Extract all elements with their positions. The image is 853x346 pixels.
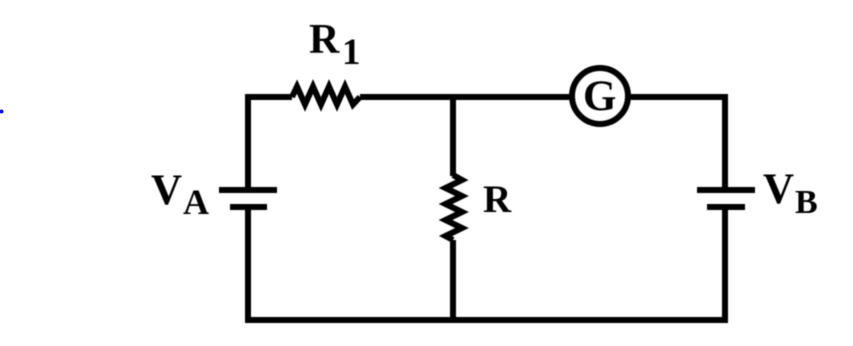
wire middle branch lower: [450, 240, 456, 320]
svg-text:V: V: [763, 166, 794, 213]
resistor R zigzag: [446, 175, 463, 240]
wire middle branch upper: [450, 97, 456, 176]
svg-text:R: R: [309, 17, 340, 63]
svg-text:V: V: [151, 167, 182, 214]
wire galvanometer to top-right corner: [629, 94, 728, 100]
resistor R1: [292, 87, 360, 105]
svg-text:1: 1: [342, 32, 361, 73]
label R1: [309, 17, 361, 73]
svg-text:B: B: [795, 184, 818, 221]
wire left branch upper: [245, 97, 251, 192]
label VB: [763, 166, 818, 221]
svg-text:R: R: [483, 178, 512, 221]
galvanometer U1 circle: [572, 68, 628, 124]
battery VA long plate: [219, 187, 277, 193]
battery VB long plate: [697, 187, 755, 193]
wire right branch lower: [722, 207, 728, 320]
battery VA short plate: [230, 204, 267, 210]
wire bottom: [245, 317, 728, 323]
wire top-left segment: [245, 94, 292, 100]
wire R1 to node A: [360, 94, 453, 100]
svg-text:A: A: [183, 182, 209, 222]
blue bullet dot: [0, 110, 4, 114]
wire node A to galvanometer: [453, 94, 571, 100]
svg-text:G: G: [583, 73, 616, 120]
label VA: [151, 167, 209, 222]
wire right branch upper: [722, 97, 728, 192]
battery VB short plate: [707, 204, 745, 210]
wire left branch lower: [245, 207, 251, 320]
node A (top middle junction): [450, 94, 456, 100]
